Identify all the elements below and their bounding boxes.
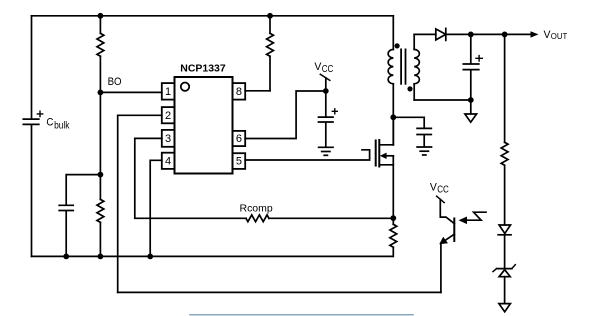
wire bottom ground rail bbox=[32, 255, 394, 257]
svg-text:CC: CC bbox=[437, 184, 449, 195]
node output cap junction bbox=[468, 32, 474, 38]
wire pin8 to startup resistor bbox=[245, 90, 270, 92]
svg-text:4: 4 bbox=[165, 156, 171, 168]
node drain junction bbox=[390, 114, 396, 120]
node source junction bbox=[390, 215, 396, 221]
zener diode Z1 bbox=[493, 265, 515, 304]
pin-1 marker circle bbox=[181, 83, 189, 91]
transformer T1 secondary bbox=[414, 34, 419, 100]
pin 2 box bbox=[162, 107, 175, 123]
transistor Q2 optocoupler bbox=[440, 199, 454, 292]
svg-text:CC: CC bbox=[322, 64, 334, 75]
wire pin6 to Vcc bbox=[245, 91, 326, 139]
Vcc supply stub bbox=[320, 74, 330, 91]
wire pin5 to gate bbox=[245, 150, 369, 160]
wire diode to Vout bbox=[446, 33, 531, 35]
svg-text:BO: BO bbox=[108, 76, 122, 88]
diode D1 output bbox=[436, 28, 446, 40]
pin 5 box bbox=[233, 153, 246, 169]
wire pin4 ground bbox=[150, 160, 162, 256]
transformer phase dot primary bbox=[395, 43, 400, 48]
transformer core bbox=[401, 49, 405, 83]
svg-text:C: C bbox=[46, 116, 53, 128]
capacitor C-out bbox=[463, 34, 482, 100]
capacitor C-snubber bbox=[417, 128, 431, 146]
resistor Rcomp bbox=[246, 215, 269, 222]
capacitor C_bulk bbox=[23, 111, 42, 256]
resistor R-divider bbox=[501, 142, 508, 165]
node Vcc junction bbox=[323, 88, 329, 94]
wire pin2 feedback bbox=[118, 115, 162, 292]
node rail-cap junction bbox=[63, 254, 69, 260]
resistor R-startup bbox=[267, 16, 274, 91]
wire top rail bbox=[32, 15, 394, 17]
hyperlink underline bbox=[190, 314, 413, 316]
node top-left junction A bbox=[98, 13, 104, 19]
wire drain to snubber bbox=[393, 117, 424, 127]
svg-text:1: 1 bbox=[165, 86, 171, 98]
Q2 emitter arrow bbox=[439, 237, 448, 245]
wire secondary top to diode bbox=[414, 33, 436, 35]
svg-text:5: 5 bbox=[236, 156, 242, 168]
ground secondary bbox=[465, 100, 477, 122]
MOSFET body arrow bbox=[380, 153, 387, 159]
wire BO node down bbox=[99, 92, 101, 174]
label Vcc opto bbox=[430, 181, 449, 195]
pin 3 box bbox=[162, 130, 175, 147]
pin 1 box bbox=[162, 83, 175, 100]
resistor R-BO-upper bbox=[97, 16, 104, 93]
label Vcc mid bbox=[314, 61, 333, 75]
label VOUT bbox=[544, 29, 568, 41]
svg-text:2: 2 bbox=[165, 110, 171, 122]
capacitor C-small bbox=[59, 205, 73, 256]
resistor R-sense bbox=[390, 218, 397, 256]
pin 4 box bbox=[162, 153, 175, 169]
pin 8 box bbox=[233, 83, 246, 100]
arrow down terminal bbox=[499, 304, 511, 312]
ground Vcc-cap bbox=[319, 147, 333, 155]
node output divider junction bbox=[502, 32, 508, 38]
wire Rcomp to source node bbox=[269, 217, 393, 219]
svg-text:NCP1337: NCP1337 bbox=[180, 64, 226, 75]
transformer phase dot secondary bbox=[407, 86, 412, 91]
svg-text:6: 6 bbox=[236, 133, 242, 145]
label C_bulk bbox=[46, 116, 70, 131]
svg-text:bulk: bulk bbox=[54, 120, 70, 132]
svg-text:8: 8 bbox=[236, 86, 242, 98]
Vcc supply stub opto bbox=[437, 196, 445, 202]
wire pin3 comp bbox=[135, 138, 246, 218]
op-amp U1 NCP1337 body bbox=[175, 77, 233, 174]
wire left vertical to C_bulk bbox=[31, 16, 33, 118]
wire to small cap bbox=[66, 175, 100, 205]
transformer T1 primary bbox=[388, 16, 393, 145]
ground snubber bbox=[417, 147, 431, 155]
svg-text:Rcomp: Rcomp bbox=[240, 203, 274, 214]
Vout arrow bbox=[531, 31, 539, 37]
wire feedback bottom bbox=[118, 291, 441, 293]
optocoupler light arrow bbox=[459, 212, 486, 224]
node rail-resistor junction bbox=[98, 254, 104, 260]
node lower junction bbox=[98, 172, 104, 178]
resistor R-BO-lower bbox=[97, 175, 104, 257]
svg-text:OUT: OUT bbox=[551, 32, 568, 41]
node rail-pin4 junction bbox=[147, 254, 153, 260]
wire BO to pin1 bbox=[100, 91, 161, 93]
node BO junction bbox=[98, 90, 104, 96]
svg-text:3: 3 bbox=[165, 133, 171, 145]
node top rail R-start junction bbox=[267, 13, 273, 19]
wire secondary return bbox=[414, 99, 471, 101]
node secondary return junction bbox=[468, 97, 474, 103]
capacitor C-Vcc bbox=[319, 91, 338, 147]
diode D2 bbox=[498, 225, 511, 268]
transistor Q1 MOSFET bbox=[376, 117, 394, 218]
wire divider to diode bbox=[504, 165, 506, 225]
wire output divider vertical bbox=[504, 34, 506, 142]
pin 6 box bbox=[233, 131, 246, 146]
